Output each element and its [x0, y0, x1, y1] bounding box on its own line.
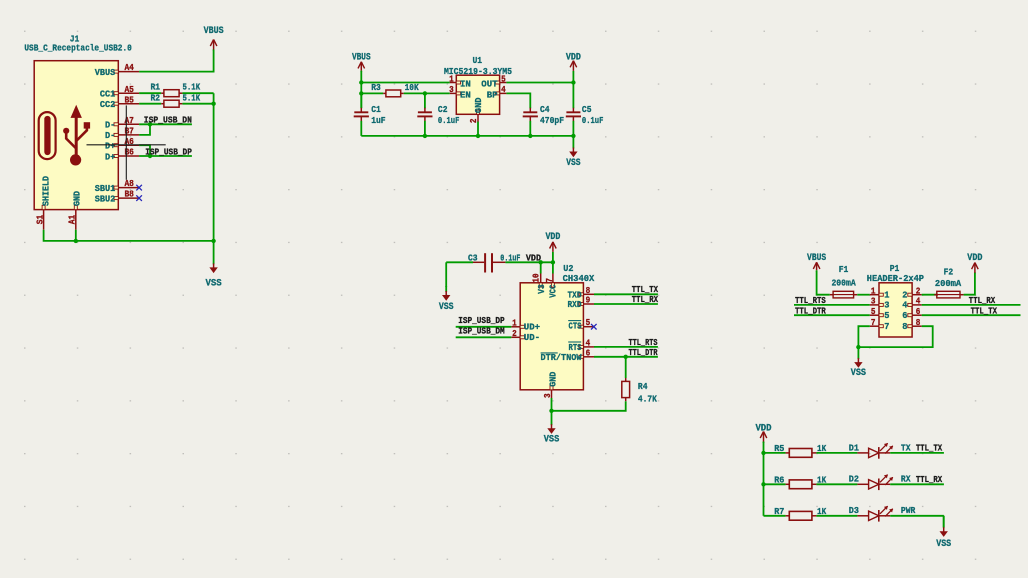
- led D2: [849, 474, 893, 490]
- wire D3 cathode: [890, 515, 944, 517]
- svg-text:VBUS: VBUS: [95, 67, 116, 78]
- svg-text:GND: GND: [72, 191, 83, 206]
- led D3: [849, 505, 893, 521]
- wire VDD drop to C5: [572, 83, 574, 109]
- power VBUS (P1): [807, 252, 826, 272]
- label ISP_USB_DM (U2): [458, 326, 505, 337]
- svg-text:CTS: CTS: [569, 321, 582, 332]
- junction rail-C4: [528, 134, 532, 138]
- svg-text:ISP_USB_DN: ISP_USB_DN: [144, 115, 192, 126]
- svg-text:S1: S1: [35, 215, 45, 224]
- svg-text:SHIELD: SHIELD: [41, 176, 52, 206]
- no-connect CTS: [591, 324, 597, 330]
- connector J1 USB_C_Receptacle_USB2.0: [24, 34, 139, 230]
- svg-text:R2: R2: [151, 92, 161, 103]
- wire PWR to VSS: [943, 516, 945, 527]
- svg-text:V3: V3: [536, 284, 547, 294]
- wire VDD to R7: [764, 515, 786, 517]
- svg-text:D-: D-: [105, 120, 115, 131]
- wire U2 GND drop: [551, 398, 553, 411]
- wire D1 cathode: [890, 452, 944, 454]
- svg-text:R6: R6: [774, 474, 784, 485]
- svg-text:6: 6: [586, 348, 591, 358]
- wire RTS row: [594, 346, 658, 348]
- svg-text:4: 4: [586, 338, 591, 348]
- wire EN row right: [404, 92, 450, 94]
- resistor R3 10K: [371, 82, 419, 97]
- svg-text:TTL_TX: TTL_TX: [916, 443, 943, 454]
- wire C3 row right: [505, 261, 553, 263]
- label ISP_USB_DP: [145, 146, 192, 157]
- power VDD (P1): [967, 252, 982, 274]
- svg-text:MIC5219-3.3YM5: MIC5219-3.3YM5: [444, 66, 512, 77]
- power VBUS (J1): [204, 25, 224, 51]
- power VBUS (regulator): [352, 51, 371, 72]
- label ISP_USB_DN: [144, 115, 192, 126]
- wire ground rail (regulator): [361, 135, 573, 137]
- junction CC2 bus: [211, 102, 215, 106]
- svg-text:SBU1: SBU1: [95, 183, 116, 194]
- wire CC1 to R1: [139, 92, 161, 94]
- capacitor C3 0.1uF: [468, 252, 521, 272]
- svg-text:RX: RX: [901, 474, 911, 485]
- wire TTL_DTR to pin5: [794, 314, 870, 316]
- svg-text:10K: 10K: [405, 82, 419, 93]
- svg-text:9: 9: [586, 296, 591, 306]
- svg-text:EN: EN: [460, 89, 471, 100]
- svg-text:7: 7: [871, 318, 876, 328]
- wire CC2 to R2: [139, 103, 161, 105]
- wire R1 to bus: [182, 92, 213, 94]
- svg-text:5.1K: 5.1K: [183, 92, 201, 103]
- svg-text:10: 10: [532, 273, 542, 282]
- wire TTL_RTS to pin3: [794, 304, 870, 306]
- svg-text:ISP_USB_DP: ISP_USB_DP: [458, 315, 505, 326]
- wire C3 to VSS: [445, 262, 447, 287]
- junction DTR-R4: [624, 355, 628, 359]
- svg-text:BP: BP: [487, 89, 498, 100]
- wire R4 top lead: [625, 357, 627, 378]
- ic U2 CH340X: [511, 262, 594, 398]
- resistor R6 1K: [774, 474, 826, 488]
- label ISP_USB_DP (U2): [458, 315, 505, 326]
- svg-text:200mA: 200mA: [831, 278, 856, 289]
- svg-text:1: 1: [871, 286, 876, 296]
- svg-text:1: 1: [512, 318, 517, 328]
- svg-text:VDD: VDD: [566, 51, 581, 62]
- wire RXD row: [594, 303, 658, 305]
- svg-text:VSS: VSS: [544, 434, 560, 445]
- wire VDD to R5: [764, 452, 786, 454]
- wire R6 to D2: [816, 483, 857, 485]
- label TTL_RX (U2): [632, 294, 659, 305]
- svg-text:R3: R3: [371, 82, 381, 93]
- svg-text:CC2: CC2: [100, 99, 116, 110]
- wire TTL_RX from pin4: [922, 304, 1021, 306]
- junction D- pair: [148, 122, 152, 126]
- svg-text:PWR: PWR: [901, 505, 916, 516]
- wire GND A1 drop: [75, 230, 77, 241]
- svg-text:8: 8: [586, 286, 591, 296]
- svg-text:F2: F2: [944, 266, 954, 277]
- svg-text:GND: GND: [473, 97, 484, 113]
- wire D- B7 link: [139, 124, 150, 135]
- wire D- A7 with label: [139, 123, 192, 125]
- svg-text:GND: GND: [547, 371, 558, 386]
- svg-text:4.7K: 4.7K: [638, 393, 657, 404]
- wire U1 GND drop: [477, 122, 479, 136]
- capacitor C1 1uF: [354, 93, 386, 135]
- svg-text:A1: A1: [68, 215, 78, 224]
- wire F2 to VDD: [964, 272, 975, 294]
- wire C3 row left: [446, 261, 473, 263]
- svg-text:R5: R5: [774, 443, 784, 454]
- svg-text:4: 4: [501, 85, 506, 95]
- svg-text:D+: D+: [105, 151, 116, 162]
- wire SHIELD to ground rail: [44, 230, 214, 241]
- label VDD (net): [526, 252, 541, 263]
- svg-text:0.1uF: 0.1uF: [438, 115, 460, 126]
- svg-text:IN: IN: [460, 79, 471, 90]
- power VSS (LED): [936, 516, 951, 549]
- fuse F1 200mA: [830, 264, 857, 298]
- svg-text:6: 6: [916, 307, 921, 317]
- svg-text:3: 3: [449, 85, 454, 95]
- label TTL_TX (U2): [632, 284, 659, 295]
- wire R4 bottom to GND net: [552, 401, 626, 411]
- svg-text:UD+: UD+: [524, 322, 541, 333]
- svg-text:VSS: VSS: [566, 157, 580, 168]
- wire EN row left: [361, 92, 383, 94]
- svg-text:4: 4: [916, 297, 921, 307]
- svg-text:D1: D1: [849, 442, 859, 453]
- svg-text:A8: A8: [124, 179, 134, 189]
- junction rail-C2: [423, 134, 427, 138]
- wire UD+ with label: [456, 326, 512, 328]
- svg-text:TTL_DTR: TTL_DTR: [795, 305, 826, 316]
- no-connect SBU1: [136, 185, 142, 191]
- svg-text:TTL_RX: TTL_RX: [916, 474, 943, 485]
- wire D2 cathode: [890, 483, 944, 485]
- header P1 HEADER-2x4P: [867, 263, 924, 337]
- label TTL_RX (P1): [969, 295, 996, 306]
- svg-text:R7: R7: [774, 506, 784, 517]
- svg-text:0.1uF: 0.1uF: [582, 115, 604, 126]
- svg-text:ISP_USB_DP: ISP_USB_DP: [145, 146, 192, 157]
- svg-text:2: 2: [916, 286, 921, 296]
- svg-text:R1: R1: [151, 82, 161, 93]
- label TTL_RX (LED): [916, 474, 943, 485]
- svg-text:B5: B5: [124, 95, 134, 105]
- label RX: [901, 474, 911, 485]
- svg-text:5.1K: 5.1K: [183, 82, 201, 93]
- svg-text:5: 5: [884, 310, 889, 321]
- svg-text:A4: A4: [124, 63, 134, 73]
- svg-text:UD-: UD-: [524, 332, 540, 343]
- power VDD (U2): [545, 231, 560, 262]
- wire IN row: [361, 82, 450, 84]
- label TTL_TX (P1): [971, 305, 998, 316]
- svg-text:5: 5: [586, 318, 591, 328]
- svg-text:TTL_TX: TTL_TX: [971, 305, 998, 316]
- svg-text:F1: F1: [839, 264, 849, 275]
- svg-text:CH340X: CH340X: [563, 273, 595, 284]
- wire UD- with label: [456, 336, 512, 338]
- wire D+ A6 link: [139, 145, 150, 156]
- junction rail-GND: [476, 134, 480, 138]
- svg-text:VBUS: VBUS: [352, 51, 371, 62]
- svg-text:6: 6: [902, 310, 907, 321]
- svg-text:VBUS: VBUS: [807, 252, 826, 263]
- svg-text:VDD: VDD: [967, 252, 982, 263]
- cursor crosshair: [87, 105, 166, 179]
- svg-text:VSS: VSS: [936, 538, 951, 549]
- svg-text:C3: C3: [468, 252, 478, 263]
- wire R2 to bus: [182, 103, 213, 105]
- svg-text:R4: R4: [638, 381, 648, 392]
- svg-text:SBU2: SBU2: [95, 193, 116, 204]
- wire VBUS vertical to C1: [360, 72, 362, 109]
- svg-text:VDD: VDD: [545, 231, 560, 242]
- wire DTR row: [594, 356, 658, 358]
- svg-text:8: 8: [916, 318, 921, 328]
- svg-text:B8: B8: [124, 190, 134, 200]
- resistor R4 4.7K: [622, 378, 657, 404]
- power VSS (P1): [851, 347, 866, 378]
- power VSS (C3): [439, 286, 454, 312]
- svg-text:CC1: CC1: [100, 89, 116, 100]
- svg-text:200mA: 200mA: [935, 278, 962, 289]
- wire R5 to D1: [816, 452, 857, 454]
- svg-text:A5: A5: [124, 85, 134, 95]
- label TTL_DTR (U2): [629, 347, 658, 358]
- wire VDD vertical (LED): [763, 442, 765, 516]
- svg-text:VCC: VCC: [547, 284, 558, 297]
- svg-text:TTL_RX: TTL_RX: [632, 294, 659, 305]
- power VSS (U2): [544, 411, 560, 445]
- led D1: [849, 442, 893, 458]
- junction ground (P1): [856, 345, 860, 349]
- svg-text:TTL_DTR: TTL_DTR: [629, 347, 658, 358]
- svg-text:RXD: RXD: [568, 299, 582, 310]
- svg-text:C1: C1: [371, 104, 381, 115]
- wire OUT row: [506, 82, 573, 84]
- junction EN-C2: [423, 91, 427, 95]
- svg-text:3: 3: [871, 297, 876, 307]
- svg-text:C2: C2: [438, 104, 448, 115]
- svg-text:VBUS: VBUS: [204, 25, 224, 36]
- svg-text:HEADER-2x4P: HEADER-2x4P: [867, 273, 924, 284]
- label TTL_DTR (P1): [795, 305, 826, 316]
- junction V3 tap: [539, 260, 543, 264]
- svg-text:1uF: 1uF: [371, 115, 386, 126]
- label TTL_RTS (P1): [795, 295, 826, 306]
- junction GND-R4: [549, 409, 553, 413]
- svg-text:TX: TX: [901, 442, 911, 453]
- wire R7 to D3: [816, 515, 857, 517]
- wire TTL_TX from pin6: [922, 314, 1021, 316]
- svg-text:USB_C_Receptacle_USB2.0: USB_C_Receptacle_USB2.0: [24, 42, 132, 53]
- label TX: [901, 442, 911, 453]
- junction rail to VSS: [211, 239, 215, 243]
- junction VDD-VCC: [551, 260, 555, 264]
- regulator U1 MIC5219-3.3YM5: [444, 55, 512, 123]
- power VDD (LED): [755, 423, 771, 443]
- svg-text:C5: C5: [582, 104, 592, 115]
- svg-text:2: 2: [512, 329, 517, 339]
- fuse F2 200mA: [922, 266, 964, 298]
- junction VDD-R6: [761, 482, 765, 486]
- wire VBUS from pin A4: [139, 50, 214, 72]
- wire TXD row: [594, 293, 658, 295]
- svg-text:D3: D3: [849, 505, 859, 516]
- power VSS (regulator): [566, 136, 580, 168]
- wire BP to C4: [506, 93, 530, 108]
- label TTL_TX (LED): [916, 443, 943, 454]
- wire CC bus vertical: [213, 93, 215, 241]
- power VDD (regulator): [566, 51, 581, 82]
- svg-text:8: 8: [902, 321, 907, 332]
- resistor R1 5.1K: [151, 82, 201, 97]
- svg-text:C4: C4: [540, 104, 550, 115]
- wire pin7 to ground: [858, 326, 869, 347]
- svg-text:3: 3: [543, 393, 553, 398]
- svg-text:U1: U1: [473, 55, 483, 66]
- wire VDD to R6: [764, 483, 786, 485]
- svg-text:7: 7: [884, 321, 889, 332]
- junction GND rail: [74, 239, 78, 243]
- wire F1 to pin1: [857, 294, 870, 296]
- junction OUT-C5: [571, 80, 575, 84]
- capacitor C4 470pF: [523, 104, 565, 136]
- svg-text:5: 5: [871, 307, 876, 317]
- wire D+ B6 with label: [139, 155, 192, 157]
- junction VDD-R5: [761, 451, 765, 455]
- junction rail-C5: [571, 134, 575, 138]
- capacitor C2 0.1uF: [417, 104, 459, 136]
- svg-text:VSS: VSS: [206, 277, 222, 288]
- wire VBUS to F1: [817, 272, 830, 295]
- label PWR: [901, 505, 916, 516]
- svg-text:VSS: VSS: [851, 367, 866, 378]
- no-connect SBU2: [136, 195, 142, 201]
- junction D+ pair: [148, 154, 152, 158]
- label TTL_RTS (U2): [629, 337, 658, 348]
- svg-text:VSS: VSS: [439, 301, 454, 312]
- svg-text:470pF: 470pF: [540, 115, 564, 126]
- svg-text:D+: D+: [105, 141, 116, 152]
- junction VBUS-EN: [359, 91, 363, 95]
- svg-text:VDD: VDD: [755, 423, 771, 434]
- capacitor C5 0.1uF: [566, 104, 604, 136]
- svg-text:7: 7: [545, 278, 555, 283]
- svg-text:OUT: OUT: [481, 79, 497, 90]
- resistor R7 1K: [774, 506, 826, 520]
- svg-text:ISP_USB_DM: ISP_USB_DM: [458, 326, 505, 337]
- junction VBUS-IN: [359, 80, 363, 84]
- wire C2 drop: [424, 93, 426, 108]
- wire pin8 to ground: [858, 326, 932, 347]
- svg-text:D2: D2: [849, 474, 859, 485]
- resistor R5 1K: [774, 443, 826, 457]
- power VSS (J1): [206, 241, 222, 289]
- resistor R2 5.1K: [151, 92, 201, 107]
